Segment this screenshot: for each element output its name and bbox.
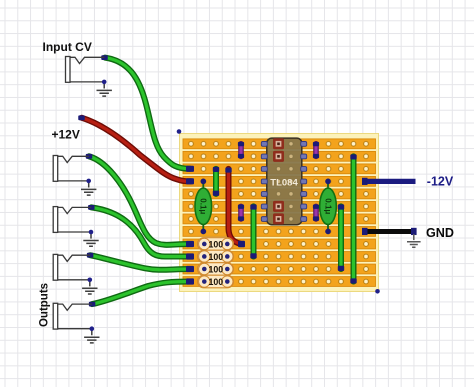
- svg-text:TL084: TL084: [270, 178, 298, 189]
- svg-text:Input CV: Input CV: [43, 40, 92, 54]
- svg-text:Outputs: Outputs: [38, 283, 50, 327]
- svg-text:+12V: +12V: [52, 128, 80, 142]
- svg-text:100: 100: [208, 264, 223, 274]
- svg-text:0.1μ: 0.1μ: [323, 198, 332, 214]
- svg-text:100: 100: [208, 277, 223, 287]
- svg-text:100: 100: [208, 239, 223, 249]
- svg-text:0.1μ: 0.1μ: [199, 198, 208, 214]
- svg-text:100: 100: [208, 252, 223, 262]
- svg-text:-12V: -12V: [427, 174, 454, 188]
- svg-text:GND: GND: [426, 226, 454, 240]
